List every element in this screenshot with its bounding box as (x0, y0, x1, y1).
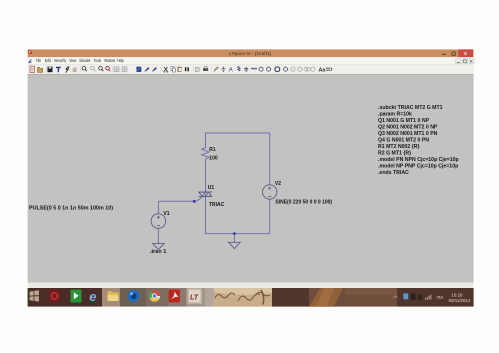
svg-text:V2: V2 (275, 181, 281, 187)
svg-text:LTspice IV - [Draft1]: LTspice IV - [Draft1] (229, 51, 271, 57)
svg-text:ITA: ITA (437, 295, 445, 300)
svg-text:Q2 N001 N002 MT2 0 NP: Q2 N001 N002 MT2 0 NP (378, 125, 438, 131)
svg-text:PULSE(0 5 0 1n 1n 50m 100m 10): PULSE(0 5 0 1n 1n 50m 100m 10) (29, 205, 113, 211)
svg-text:R1 MT2 N002 {R}: R1 MT2 N002 {R} (378, 144, 420, 150)
svg-text:Hierarchy: Hierarchy (54, 58, 67, 63)
svg-text:File: File (36, 58, 42, 63)
svg-text:Help: Help (117, 58, 124, 63)
svg-text:R1: R1 (209, 147, 216, 153)
svg-text:LT: LT (190, 294, 199, 301)
svg-text:SINE(0 220 50 0 0 0 100): SINE(0 220 50 0 0 0 100) (275, 200, 332, 206)
svg-text:Window: Window (104, 58, 115, 63)
svg-text:Simulate: Simulate (79, 58, 91, 63)
svg-text:.model NP PNP Cjc=10p Cje=10p: .model NP PNP Cjc=10p Cje=10p (378, 164, 458, 170)
svg-text:.subckt TRIAC MT2 G MT1: .subckt TRIAC MT2 G MT1 (378, 105, 443, 111)
svg-text:Aa: Aa (319, 67, 327, 73)
svg-text:TRIAC: TRIAC (209, 202, 225, 208)
svg-text:e: e (89, 289, 96, 304)
svg-text:16:18: 16:18 (452, 292, 464, 297)
svg-text:.tran 1: .tran 1 (150, 249, 167, 255)
svg-text:Q4 G N001 MT2 0 PN: Q4 G N001 MT2 0 PN (378, 138, 429, 144)
svg-text:V1: V1 (163, 211, 169, 217)
svg-text:06/11/2014: 06/11/2014 (449, 298, 471, 303)
svg-text:U1: U1 (208, 185, 215, 191)
svg-text:A: A (229, 68, 233, 74)
svg-text:100: 100 (209, 156, 218, 162)
svg-text:.ends TRIAC: .ends TRIAC (378, 170, 409, 176)
svg-text:Q1 N001 G MT1 0 NP: Q1 N001 G MT1 0 NP (378, 118, 430, 124)
svg-text:.model PN NPN Cjc=10p Cje=10p: .model PN NPN Cjc=10p Cje=10p (378, 157, 459, 163)
svg-text:Q3 N002 N001 MT1 0 PN: Q3 N002 N001 MT1 0 PN (378, 131, 438, 137)
svg-text:Tools: Tools (94, 58, 102, 63)
svg-text:R2 G MT1 {R}: R2 G MT1 {R} (378, 151, 411, 157)
svg-text:Edit: Edit (45, 58, 52, 63)
svg-text:View: View (69, 58, 77, 63)
svg-text:.param R=10k: .param R=10k (378, 112, 412, 118)
